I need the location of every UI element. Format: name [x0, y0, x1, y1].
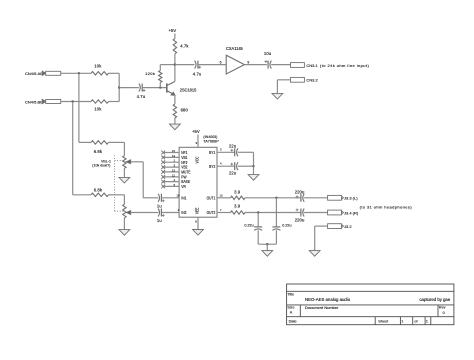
svg-text:J3.2: J3.2: [344, 224, 352, 229]
pin 9 (CXA1145 output): [247, 60, 249, 64]
capacitor 10u (line out coupling): [264, 51, 272, 68]
svg-text:CN4/5.B0: CN4/5.B0: [25, 99, 43, 104]
capacitor 220u (headphone R): [295, 209, 305, 223]
ground (emitter): [170, 124, 181, 130]
wire 1u to IN1 pin: [161, 197, 179, 199]
wire filter caps to ground: [258, 230, 276, 250]
connector J3.2 (headphone ground): [328, 224, 353, 229]
wire J3.2 to ground: [315, 226, 328, 251]
pin 7 OUT2: [207, 208, 231, 215]
resistor 6.8k (channel 1): [91, 141, 109, 154]
connector CN4/5.B0 (audio input B): [25, 99, 61, 104]
svg-text:CXA1145: CXA1145: [226, 46, 243, 51]
svg-text:4.7u: 4.7u: [193, 72, 202, 77]
svg-text:13: 13: [172, 168, 176, 172]
svg-text:4.7u: 4.7u: [137, 94, 146, 99]
pin 4 BY2: [209, 162, 235, 169]
wire emitter: [174, 95, 176, 104]
resistor 4.7k (collector load): [173, 34, 189, 65]
svg-text:1: 1: [426, 319, 428, 323]
svg-text:1: 1: [401, 319, 403, 323]
svg-text:VB2: VB2: [181, 165, 187, 169]
svg-text:TA7668P: TA7668P: [203, 139, 219, 143]
connector J3.3 (headphone left): [328, 195, 359, 200]
svg-text:+5V: +5V: [192, 129, 200, 134]
capacitor 0.22u (right): [272, 223, 291, 230]
svg-text:IN2: IN2: [181, 211, 186, 215]
wire gang dashed link: [115, 156, 125, 213]
svg-text:6.8k: 6.8k: [94, 188, 103, 193]
capacitor 0.22u (left): [244, 223, 262, 230]
svg-text:220u: 220u: [295, 190, 305, 195]
svg-text:0: 0: [443, 311, 445, 315]
svg-text:10u: 10u: [264, 51, 272, 56]
pin 3 BY1: [209, 148, 235, 155]
svg-text:14: 14: [172, 154, 176, 158]
svg-text:Sheet: Sheet: [378, 318, 389, 323]
wire emitter resistor to ground: [174, 118, 176, 124]
potentiometer VBL-1a (volume, channel 1): [123, 156, 144, 169]
connector CN4/5.A0 (audio input A): [25, 71, 61, 76]
svg-text:10: 10: [220, 193, 224, 197]
svg-text:0.22u: 0.22u: [244, 223, 253, 227]
svg-text:1u: 1u: [157, 204, 162, 209]
capacitor 4.7u (collector coupling): [193, 61, 202, 77]
node A junction: [78, 72, 80, 74]
pin 4 BASE (no connect): [161, 178, 190, 184]
svg-text:NF1: NF1: [181, 151, 187, 155]
ground (pot 2): [119, 230, 130, 236]
label VEE: [195, 207, 199, 214]
svg-text:VEE: VEE: [195, 207, 199, 214]
wire CN4/5.A0 to node: [61, 72, 91, 74]
wire OUT2 tap to cap: [257, 213, 259, 227]
wire BY2 cap to ground bar: [238, 165, 255, 175]
svg-text:1u: 1u: [157, 218, 162, 223]
svg-text:NF2: NF2: [181, 160, 187, 164]
svg-text:(to 24k ohm line input): (to 24k ohm line input): [320, 63, 369, 68]
svg-text:2SC1815: 2SC1815: [180, 87, 197, 92]
wire 1u to IN2 pin: [161, 212, 179, 214]
svg-text:16: 16: [176, 193, 180, 197]
ground (pot 1): [119, 177, 130, 183]
power +5V (IC supply): [192, 129, 200, 134]
svg-text:(IN4003): (IN4003): [203, 135, 217, 139]
svg-text:VBL-1: VBL-1: [101, 159, 111, 163]
title block labels: [287, 292, 445, 323]
svg-text:BY2: BY2: [209, 164, 215, 168]
capacitor 1u (IN1 coupling): [157, 194, 165, 209]
pin 1 IN2: [177, 208, 186, 215]
svg-text:9: 9: [247, 60, 249, 64]
capacitor 22u (BY2 bypass): [229, 162, 238, 175]
wire 220u R to J3.4: [304, 212, 328, 214]
pin 14 VB1 (no connect): [161, 154, 187, 160]
title text NEO-AES analog audio: [305, 297, 351, 302]
pin 8 VEE wire: [195, 217, 198, 229]
ground (bypass): [248, 175, 259, 181]
wire OUT1 tap to cap: [275, 198, 277, 227]
ground (J3.2): [309, 251, 320, 257]
svg-text:+5V: +5V: [169, 28, 177, 33]
svg-text:3.9: 3.9: [234, 189, 241, 194]
svg-text:VCC: VCC: [195, 156, 199, 163]
wire 6.8k to pot 1: [109, 142, 125, 155]
svg-text:captured by gae: captured by gae: [419, 297, 450, 302]
pin 15 NF1 (no connect): [161, 149, 187, 155]
resistor 120k (feedback bias): [145, 65, 162, 88]
svg-text:10k: 10k: [94, 64, 102, 69]
svg-text:220u: 220u: [295, 217, 305, 222]
wire summing bar to coupling cap: [119, 87, 139, 89]
capacitor 220u (headphone L): [295, 190, 305, 202]
svg-text:VB1: VB1: [181, 156, 187, 160]
title text captured by gae: [419, 297, 450, 302]
note (to 24k ohm line input): [320, 63, 369, 68]
wire pot 2 to ground: [123, 218, 125, 230]
svg-text:CN4/5.A0: CN4/5.A0: [25, 71, 43, 76]
pin 9 VCC wire: [196, 135, 198, 148]
svg-text:(to 31 ohm headphones): (to 31 ohm headphones): [360, 205, 413, 210]
wire BY1 cap to ground bar: [238, 152, 254, 166]
ground (filter): [262, 251, 273, 257]
svg-text:CN3.2: CN3.2: [306, 78, 318, 83]
wire 10u to CN3.1: [271, 64, 290, 66]
svg-text:Size: Size: [287, 306, 294, 310]
svg-text:15: 15: [172, 149, 176, 153]
resistor 10k (channel B mix): [91, 100, 109, 112]
wire input B tap down: [73, 102, 91, 195]
pin 2 NF2 (no connect): [161, 159, 187, 165]
wire collector node to output cap: [175, 64, 195, 66]
title block frame: [287, 284, 454, 325]
pin 6 (CXA1145 input): [220, 60, 222, 64]
svg-text:J3.3 (L): J3.3 (L): [344, 196, 358, 201]
svg-text:IN1: IN1: [181, 196, 186, 200]
svg-text:Title: Title: [287, 292, 294, 296]
svg-text:10k: 10k: [94, 106, 102, 111]
wire CXA1145 output: [244, 64, 267, 66]
svg-text:3.9: 3.9: [234, 204, 241, 209]
node summing junction: [118, 86, 120, 88]
connector CN3.2 (line ground): [291, 77, 319, 82]
svg-text:120k: 120k: [145, 71, 155, 76]
wire collector: [174, 65, 176, 82]
pin 12 PW (no connect): [161, 173, 187, 179]
wire CN4/5.B0 to node: [61, 101, 91, 103]
wire 120k top to collector node: [160, 64, 175, 66]
svg-text:22u: 22u: [229, 144, 237, 149]
capacitor 22u (BY1 bypass): [229, 144, 238, 157]
pin 5 VR (no connect): [161, 183, 186, 189]
resistor 6.8k (channel 2): [91, 188, 109, 197]
svg-text:CN3.1: CN3.1: [306, 63, 318, 68]
resistor 3.9 (OUT1 series): [231, 189, 246, 199]
wire cap to base: [142, 87, 167, 89]
pin 13 MUTE (no connect): [161, 168, 191, 174]
wire 10k B to summing bar: [109, 101, 120, 103]
svg-text:J3.4 (R): J3.4 (R): [344, 210, 359, 215]
wire OUT2 to 220u: [245, 211, 301, 213]
svg-text:6.8k: 6.8k: [94, 149, 103, 154]
potentiometer VBL-1b (volume, channel 2): [123, 204, 159, 218]
ground (IC VEE): [193, 230, 204, 236]
svg-text:(10k dual?): (10k dual?): [92, 164, 110, 168]
IC U TA7668P body: [179, 135, 219, 217]
svg-text:Rev: Rev: [439, 306, 446, 310]
resistor 680 (emitter): [173, 104, 188, 118]
svg-text:PW: PW: [181, 175, 187, 179]
pin 10 OUT1: [207, 193, 231, 200]
connector J3.4 (headphone right): [328, 210, 359, 215]
connector CN3.1 (line output): [291, 63, 319, 68]
note (to 31 ohm headphones): [360, 205, 413, 210]
svg-text:12: 12: [172, 173, 176, 177]
capacitor 1u (IN2 coupling): [157, 209, 165, 224]
svg-text:OUT2: OUT2: [207, 211, 216, 215]
ground (CN3.2): [272, 93, 283, 99]
op-amp buffer U CXA1145: [226, 46, 244, 74]
svg-text:6: 6: [220, 60, 222, 64]
wire pot 1 to ground: [123, 168, 125, 177]
resistor 10k (channel A mix): [91, 64, 109, 76]
label VCC: [195, 156, 199, 163]
wire 10k A to summing bar: [109, 72, 120, 74]
svg-text:Date: Date: [289, 319, 297, 323]
wire input A tap down: [79, 73, 91, 142]
svg-text:Document Number: Document Number: [305, 305, 339, 310]
resistor 3.9 (OUT2 series): [231, 204, 246, 215]
svg-text:MUTE: MUTE: [181, 170, 191, 174]
wire 220u L to J3.3: [304, 197, 328, 199]
node base junction: [159, 86, 161, 88]
svg-text:BY1: BY1: [209, 151, 215, 155]
wire cap to CXA1145 input: [198, 64, 226, 66]
power +5V (collector supply): [169, 28, 177, 33]
svg-text:BASE: BASE: [181, 180, 190, 184]
wire OUT1 to 220u: [245, 197, 301, 199]
node collector junction: [174, 63, 176, 65]
pin 3 VB2 (no connect): [161, 164, 187, 170]
svg-text:OUT1: OUT1: [207, 196, 216, 200]
wire pot 1 wiper down to IN1: [143, 162, 158, 198]
wire CN3.2 to ground: [277, 80, 290, 94]
svg-text:VR: VR: [181, 185, 186, 189]
svg-text:NEO-AES analog audio: NEO-AES analog audio: [305, 297, 351, 302]
wire 6.8k to pot 2: [109, 195, 125, 205]
node B junction: [72, 100, 74, 102]
svg-text:0.22u: 0.22u: [282, 223, 291, 227]
wire summing bar: [118, 73, 120, 101]
transistor Q 2SC1815: [167, 82, 197, 96]
label VBL-1 (10k dual?): [92, 159, 111, 167]
capacitor 4.7u (base coupling): [137, 84, 146, 100]
svg-text:4.7k: 4.7k: [180, 43, 189, 48]
pin 16 IN1: [176, 193, 186, 200]
svg-text:22u: 22u: [229, 171, 237, 176]
svg-text:680: 680: [181, 107, 189, 112]
